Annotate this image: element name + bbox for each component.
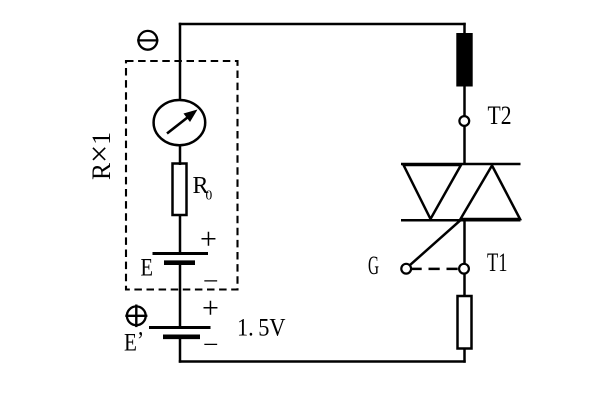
svg-text:+: +	[202, 292, 219, 325]
svg-text:T1: T1	[487, 248, 508, 277]
wire R0 to battery E	[179, 215, 182, 254]
battery E plates	[153, 254, 209, 263]
galvanometer G meter	[154, 100, 206, 145]
terminal T1	[459, 264, 469, 274]
dashed box (ohmmeter)	[126, 61, 238, 290]
wire load resistor to T1	[463, 273, 466, 296]
wire E to E'	[179, 263, 182, 328]
wire left top (into dashed box to meter)	[179, 23, 182, 100]
dark resistor (filled)	[457, 34, 472, 87]
wire T1 to triac	[463, 220, 466, 265]
gate terminal G	[401, 264, 411, 274]
svg-text:T2: T2	[488, 101, 512, 130]
gate lead	[409, 220, 461, 266]
wire T2 to dark resistor	[463, 86, 466, 117]
dashed gate wire	[411, 268, 460, 271]
svg-text:–: –	[204, 330, 218, 357]
svg-text:1. 5V: 1. 5V	[237, 315, 286, 342]
wire E' to bottom	[179, 337, 182, 363]
wire meter to R0	[179, 146, 182, 165]
svg-text:0: 0	[206, 188, 213, 203]
resistor R0	[173, 164, 187, 216]
wire top	[179, 23, 466, 26]
svg-text:E: E	[141, 255, 154, 282]
wire triac to T2	[463, 126, 466, 165]
battery E' plates	[149, 328, 211, 337]
wire bottom	[179, 360, 466, 363]
svg-text:G: G	[368, 251, 379, 280]
wire dark resistor to top	[463, 23, 466, 34]
positive-probe symbol	[125, 305, 147, 328]
svg-text:R×1: R×1	[82, 132, 118, 180]
triac U1	[401, 164, 521, 220]
svg-text:E’: E’	[124, 328, 144, 357]
resistor load	[458, 296, 472, 349]
wire right bottom (bottom to load resistor)	[463, 348, 466, 363]
negative-probe symbol	[137, 31, 158, 50]
svg-text:–: –	[204, 266, 218, 293]
terminal T2	[459, 116, 469, 126]
svg-text:+: +	[200, 223, 217, 256]
